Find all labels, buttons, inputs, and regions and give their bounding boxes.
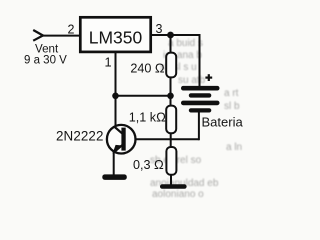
svg-text:a rt: a rt — [224, 88, 239, 99]
svg-text:3: 3 — [156, 22, 163, 36]
svg-text:a ln: a ln — [226, 142, 242, 153]
svg-text:LM350: LM350 — [89, 28, 143, 48]
svg-text:sl b: sl b — [224, 101, 240, 112]
svg-text:9 a 30 V: 9 a 30 V — [24, 54, 67, 66]
svg-text:240 Ω: 240 Ω — [130, 61, 165, 76]
svg-text:a buid s: a buid s — [168, 38, 203, 49]
svg-text:0,3 Ω: 0,3 Ω — [133, 157, 164, 172]
svg-text:su atb: su atb — [178, 75, 206, 86]
svg-text:1: 1 — [104, 54, 111, 69]
svg-text:2: 2 — [68, 23, 75, 37]
svg-text:2N2222: 2N2222 — [56, 128, 104, 143]
svg-text:aoloniano o: aoloniano o — [152, 189, 204, 200]
svg-text:Bateria: Bateria — [202, 115, 244, 130]
svg-text:1,1 kΩ: 1,1 kΩ — [129, 110, 166, 125]
